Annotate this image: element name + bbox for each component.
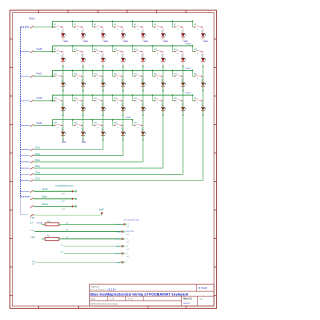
junction D11 to column C2 [102, 65, 103, 66]
connector pin K2 [122, 231, 125, 233]
label key switch S20 name [114, 73, 118, 75]
label key switch S29 pin [137, 103, 139, 105]
key switch S17 [53, 75, 62, 77]
label diode D36 value [124, 132, 127, 134]
key switch S1 [53, 26, 62, 28]
frame inner border [12, 13, 214, 306]
label key switch S12 name [114, 49, 118, 51]
junction drop S10 [72, 45, 74, 47]
label pin PwrA [116, 223, 122, 226]
junction row PwrD feed corner [52, 100, 54, 102]
svg-text:D7: D7 [182, 30, 184, 32]
bus PWR vertical [20, 27, 22, 197]
wire D6 cathode [162, 37, 164, 41]
wire row PwrB feed [34, 51, 53, 53]
svg-text:PwrA: PwrA [116, 223, 122, 226]
label diode D3 value [104, 34, 107, 36]
label diode D34 value [84, 132, 87, 134]
key switch S11 [93, 50, 102, 52]
diode D24 [201, 83, 205, 87]
wire drop S19 [92, 71, 94, 77]
wire D15 cathode [182, 62, 184, 66]
wire D23 cathode [182, 86, 184, 90]
svg-text:Cl5a: Cl5a [35, 166, 40, 168]
junction D14 to column C5 [162, 65, 163, 66]
svg-text:police: police [115, 239, 121, 241]
svg-text:Cl7a: Cl7a [35, 179, 40, 181]
svg-text:B.Mitchell & Sons Intl. Keyb.: B.Mitchell & Sons Intl. Keyb. [91, 303, 119, 306]
label wire note [66, 237, 69, 239]
diode D21 [141, 83, 145, 87]
label column net C3 [124, 41, 128, 42]
connector pin J3 [72, 206, 77, 208]
frame tick right 1 [214, 38, 217, 40]
bus ripper Clock [30, 190, 33, 192]
wire row PwrC riser [52, 70, 54, 76]
wire D17 cathode [62, 86, 64, 90]
key switch S36 [113, 124, 122, 126]
frame tick left 3 [9, 95, 12, 97]
label key switch S5 pin [137, 29, 139, 31]
label key switch S14 name [154, 49, 158, 51]
wire S27 to D27 [102, 101, 103, 107]
junction D19 to column C2 [102, 90, 103, 91]
junction drop S16 [192, 45, 194, 47]
wire S34 to D34 [82, 125, 83, 131]
junction D24 to column C7 [202, 90, 203, 91]
wire D7 cathode [182, 37, 184, 41]
junction drop S2 [72, 21, 74, 23]
label diode D16 name [202, 54, 204, 57]
label key switch S6 pin [157, 29, 159, 31]
svg-text:25.5.09: 25.5.09 [108, 288, 117, 291]
wire D3 cathode [102, 37, 104, 41]
svg-text:Blue KeyMap/extended wiring of: Blue KeyMap/extended wiring of FOOBAR/AT… [90, 292, 188, 296]
title block divider v1c [125, 296, 127, 301]
wire drop S30 [152, 95, 154, 101]
label diode D14 value [164, 59, 167, 61]
frame tick left 4 [9, 124, 12, 126]
junction D30 to column C5 [162, 115, 163, 116]
label key switch S22 pin [157, 78, 159, 80]
diode D26 [81, 107, 85, 111]
label key switch S17 name [54, 73, 58, 75]
diode D7 [181, 33, 185, 37]
wire column C2 stub [34, 149, 104, 151]
resistor R1 [45, 223, 59, 226]
svg-text:a1: a1 [127, 227, 129, 229]
wire row PwrB riser [52, 46, 54, 52]
junction row PwrE feed corner [52, 125, 54, 127]
label pin note [127, 234, 129, 236]
label key switch S2 pin [77, 29, 79, 31]
junction D25 to column C0 [62, 115, 63, 116]
svg-text:Cl2a: Cl2a [35, 148, 40, 150]
connector pin K5 [122, 252, 125, 254]
bus bottom corner [21, 196, 31, 198]
wire drop S24 [192, 71, 194, 77]
wire D34 cathode [82, 136, 84, 140]
wire S33 to D33 [62, 125, 63, 131]
label column net C2 [104, 41, 108, 42]
wire D27 cathode [102, 111, 104, 115]
junction drop S11 [92, 45, 94, 47]
wire row PwrD feed [34, 100, 53, 102]
key switch S10 [73, 50, 82, 52]
wire D4 cathode [122, 37, 124, 41]
label key switch S15 name [174, 49, 178, 51]
wire S16 to D16 [202, 52, 203, 58]
frame tick left 8 [9, 238, 12, 240]
diode D28 [121, 107, 125, 111]
label column C4 stub [35, 160, 40, 162]
key switch S19 [93, 75, 102, 77]
wire SpkB [34, 214, 102, 216]
junction D16 to column C7 [202, 65, 203, 66]
title block divider v2 [181, 296, 183, 306]
key switch S23 [173, 75, 182, 77]
label column C3 stub [35, 154, 40, 156]
label diode D35 name [102, 128, 104, 131]
wire D9 cathode [62, 62, 64, 66]
label column net C4 [144, 41, 148, 42]
bus ripper column C6 [30, 173, 33, 175]
wire S10 to D10 [82, 52, 83, 58]
junction D18 to column C1 [82, 90, 83, 91]
junction D21 to column C4 [142, 90, 143, 91]
title block divider v1b [107, 296, 109, 301]
diode D27 [101, 107, 105, 111]
label connector pin J2 [62, 201, 65, 203]
bus faint continuation [21, 197, 29, 215]
diode D23 [181, 83, 185, 87]
label key switch S4 name [114, 24, 117, 26]
bus ripper Data [30, 198, 33, 200]
wire drop S29 [132, 95, 134, 101]
bus stub column net C8 [21, 180, 30, 182]
junction drop S18 [72, 70, 74, 72]
label pin note [127, 242, 129, 244]
svg-text:D6: D6 [162, 30, 164, 32]
key switch S15 [173, 50, 182, 52]
label key switch S35 pin [97, 127, 99, 129]
wire S35 to D35 [102, 125, 103, 131]
label diode D9 value [64, 59, 67, 61]
bus ripper column C3 [30, 155, 33, 157]
junction D29 to column C4 [142, 115, 143, 116]
frame tick left 5 [9, 152, 12, 154]
wire row PwrA top bus line [53, 20, 193, 22]
junction drop S20 [112, 70, 114, 72]
svg-text:a1: a1 [127, 256, 129, 258]
node VivP terminal [101, 212, 103, 215]
svg-text:+ 1.2 CPU: + 1.2 CPU [125, 231, 135, 233]
label key switch S2 name [74, 24, 77, 26]
wire drop S2 [72, 21, 74, 27]
wire R2 left lead [42, 238, 46, 240]
title block outline [90, 284, 214, 306]
diode D32 [201, 107, 205, 111]
junction drop S28 [112, 94, 114, 96]
diode D16 [201, 58, 205, 62]
wire D31 cathode [182, 111, 184, 115]
label key switch S31 pin [177, 103, 179, 105]
label diode D1 value [64, 34, 67, 36]
diode D1 [61, 33, 65, 37]
label R2 left [30, 237, 36, 239]
junction drop S8 [192, 21, 194, 23]
svg-text:PwrA: PwrA [29, 17, 35, 20]
key switch S22 [153, 75, 162, 77]
label key switch S18 pin [77, 78, 79, 80]
junction D12 to column C3 [122, 65, 123, 66]
frame tick bottom 3 [147, 306, 149, 309]
junction D37 to column C4 [142, 139, 143, 140]
wire S36 to D36 [122, 125, 123, 131]
wire S8 to D8 [202, 27, 203, 33]
title block divider h1 [90, 290, 214, 292]
label key switch S10 pin [77, 54, 79, 56]
connector pin K4 [122, 245, 125, 247]
label section header [55, 185, 74, 188]
label diode D14 name [162, 54, 164, 57]
bus ripper column C5 [30, 167, 33, 169]
label connector pin K4 number [126, 246, 128, 248]
wire column C5 vertical [162, 66, 164, 168]
junction drop S13 [132, 45, 134, 47]
wire +5V row [35, 231, 122, 233]
wire D12 cathode [122, 62, 124, 66]
diode D3 [101, 33, 105, 37]
label diode D37 name [142, 128, 144, 131]
svg-text:D&S: D&S [91, 299, 96, 301]
key switch S13 [133, 50, 142, 52]
key switch S28 [113, 100, 122, 102]
label diode D32 name [202, 103, 204, 106]
label C3 [61, 252, 65, 254]
wire column C5 stub [34, 167, 164, 169]
title block text company [91, 285, 100, 288]
wire row PwrA feed [34, 26, 53, 28]
label column net C7 [204, 41, 208, 42]
frame tick right 10 [214, 295, 217, 297]
wire drop S5 [132, 21, 134, 27]
label key switch S32 name [194, 98, 198, 100]
bus ripper row PwrB [30, 51, 33, 53]
label diode D13 name [142, 54, 144, 57]
junction D22 to column C5 [162, 90, 163, 91]
wire S19 to D19 [102, 76, 103, 82]
wire column C0 vertical [62, 66, 64, 141]
label key switch S10 name [74, 49, 78, 51]
junction drop S6 [152, 21, 154, 23]
wire Reset [34, 205, 73, 207]
label diode D29 name [142, 103, 144, 106]
diode D10 [81, 58, 85, 62]
svg-text:pa/cw: pa/cw [115, 253, 121, 255]
frame tick right 5 [214, 152, 217, 154]
label PwrC right [186, 67, 192, 70]
label pin police [115, 239, 121, 241]
bus stub row PwrC [21, 75, 30, 77]
label diode D9 name [62, 55, 64, 57]
label key switch S11 name [94, 49, 98, 51]
svg-text:Cl3a: Cl3a [35, 154, 40, 156]
junction drop S34 [72, 119, 74, 121]
bus stub column net C3 [21, 149, 30, 151]
wire row PwrB top bus line [53, 45, 193, 47]
key switch S12 [113, 50, 122, 52]
wire row PwrA riser [52, 21, 54, 27]
wire drop S26 [72, 95, 74, 101]
label key switch S28 pin [117, 103, 119, 105]
frame tick left 1 [9, 38, 12, 40]
junction drop S5 [132, 21, 134, 23]
label diode D25 name [62, 103, 64, 106]
diode D36 [121, 132, 125, 136]
bus ripper row PwrC [30, 75, 33, 77]
label diode D26 value [84, 108, 87, 110]
wire D28 cathode [122, 111, 124, 115]
svg-text:a1: a1 [127, 242, 129, 244]
label key switch S37 name [134, 123, 138, 125]
label key switch S7 pin [177, 29, 179, 31]
label key switch S23 pin [177, 78, 179, 80]
label diode D8 name [202, 30, 204, 32]
wire D1 cathode [62, 37, 64, 41]
junction drop S14 [152, 45, 154, 47]
label key switch S15 pin [177, 54, 179, 56]
label diode D15 value [184, 59, 187, 61]
wire drop S34 [72, 120, 74, 126]
label diode D18 value [84, 83, 87, 85]
junction drop S32 [192, 94, 194, 96]
wire S5 to D5 [142, 27, 143, 33]
label diode D7 value [184, 34, 187, 36]
wire drop S6 [152, 21, 154, 27]
wire row PwrE top bus line [53, 119, 133, 121]
label diode D19 name [102, 79, 104, 82]
wire drop S4 [112, 21, 114, 27]
diode D2 [81, 33, 85, 37]
wire R2 to pin [59, 238, 122, 240]
junction drop S19 [92, 70, 94, 72]
title block divider v1d [143, 296, 145, 301]
key switch S31 [173, 100, 182, 102]
title block text sheet ref [199, 287, 208, 290]
junction D33 to column C0 [62, 139, 63, 140]
label Clock [42, 189, 49, 191]
label key switch S24 name [194, 73, 198, 75]
label diode D20 name [122, 79, 124, 82]
frame tick left 7 [9, 209, 12, 211]
label diode D34 name [82, 128, 84, 131]
label R1 left [30, 222, 43, 225]
bus stub column net C6 [21, 167, 30, 169]
label diode D32 value [204, 108, 207, 110]
diode D37 [141, 132, 145, 136]
wire S2 to D2 [82, 27, 83, 33]
label key switch S8 pin [197, 29, 199, 31]
wire drop S36 [112, 120, 114, 126]
label key switch S26 pin [77, 103, 79, 105]
frame tick top 1 [38, 10, 40, 13]
label pin pa/cw [115, 253, 121, 255]
wire S37 to D37 [142, 125, 143, 131]
junction D26 to column C1 [82, 115, 83, 116]
label key switch S30 pin [157, 103, 159, 105]
label diode D3 name [102, 30, 104, 32]
label column net C0 [64, 41, 68, 42]
key switch S29 [133, 100, 142, 102]
junction row PwrB feed corner [52, 51, 54, 53]
wire D24 cathode [202, 86, 204, 90]
label pin note [127, 249, 129, 251]
wire D20 cathode [122, 86, 124, 90]
label column C5 stub [35, 166, 40, 168]
label diode D23 value [184, 83, 187, 85]
label key switch S13 pin [137, 54, 139, 56]
diode D35 [101, 132, 105, 136]
label key switch S12 pin [117, 54, 119, 56]
label diode D6 name [162, 30, 164, 32]
label key switch S17 pin [57, 78, 59, 80]
wire drop S14 [152, 46, 154, 52]
svg-text:Rev 0.2: Rev 0.2 [184, 298, 193, 301]
label CPU note [125, 231, 135, 233]
frame tick right 3 [214, 95, 217, 97]
svg-text:B5021: B5021 [184, 303, 191, 305]
title block divider v1 [196, 284, 198, 291]
frame tick left 9 [9, 266, 12, 268]
diode D17 [61, 83, 65, 87]
wire drop S23 [172, 71, 174, 77]
wire drop S37 [132, 120, 134, 126]
wire D26 cathode [82, 111, 84, 115]
svg-text:PwrD: PwrD [186, 92, 192, 95]
wire D30 cathode [162, 111, 164, 115]
label diode D10 value [84, 59, 87, 61]
svg-text:D13: D13 [142, 54, 144, 57]
junction drop S30 [152, 94, 154, 96]
junction drop S36 [112, 119, 114, 121]
label key switch S11 pin [97, 54, 99, 56]
junction row PwrA feed corner [52, 26, 54, 28]
svg-text:D11: D11 [102, 54, 104, 57]
label connector pin J3 [62, 209, 65, 211]
diode D14 [161, 58, 165, 62]
junction drop S29 [132, 94, 134, 96]
title block divider h3 [90, 300, 182, 302]
label key switch S23 name [174, 73, 178, 75]
frame tick right 4 [214, 124, 217, 126]
label wire note [66, 230, 69, 232]
bus ripper SpkB [30, 214, 33, 216]
label key switch S33 name [54, 123, 58, 125]
wire drop S31 [172, 95, 174, 101]
svg-text:adj/w: adj/w [116, 246, 121, 248]
diode D13 [141, 58, 145, 62]
label key switch S36 name [114, 123, 118, 125]
key switch S6 [153, 26, 162, 28]
wire S9 to D9 [62, 52, 63, 58]
wire GndC row [35, 261, 122, 263]
wire S20 to D20 [122, 76, 123, 82]
junction drop S3 [92, 21, 94, 23]
label column net C6 [184, 41, 188, 42]
wire D16 cathode [202, 62, 204, 66]
label pin 4.2k [117, 231, 122, 233]
